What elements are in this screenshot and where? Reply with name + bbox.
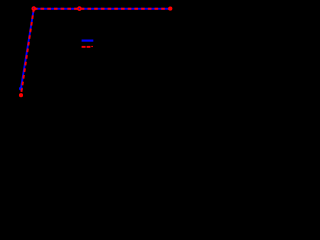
blue under-marker fills (show through red rings) xyxy=(32,7,35,10)
blue marker at first blue point xyxy=(19,87,23,91)
red filled marker bottom xyxy=(19,93,23,97)
blue solid series line xyxy=(21,9,170,89)
legend red dashed sample xyxy=(82,46,86,48)
red filled marker right end xyxy=(168,7,172,11)
red dashed series line (flat segment) xyxy=(34,8,171,10)
red ring markers xyxy=(32,7,35,10)
legend blue solid sample xyxy=(82,40,94,42)
red dashed series line (slope segment) xyxy=(21,9,34,96)
